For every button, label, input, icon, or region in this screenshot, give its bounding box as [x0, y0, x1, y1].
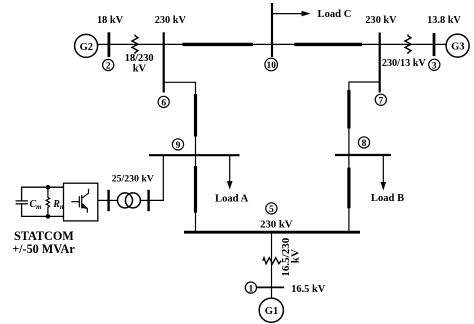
transformer 230/13 kV winding zigzag: [405, 35, 411, 54]
wire: corner from bus 7 down to bus 8: [349, 82, 380, 155]
wire: thick line segment bus10 to bus7-side: [294, 43, 362, 46]
wire: thick line segment bus8 to bus5: [347, 168, 350, 209]
capacitor Cm plates: [16, 201, 28, 204]
wire: thick line segment bus6-side to bus10: [183, 43, 253, 46]
svg-text:230/13 kV: 230/13 kV: [382, 58, 427, 69]
svg-text:5: 5: [269, 205, 274, 215]
node 5: [266, 203, 277, 215]
wire transformer to right bar: [140, 199, 148, 201]
svg-text:6: 6: [161, 99, 166, 109]
transformer 25/230 kV circles: [118, 193, 141, 208]
wire: bus9 down to bus5: [195, 156, 197, 231]
svg-text:18/230: 18/230: [125, 53, 154, 64]
svg-text:8: 8: [362, 139, 367, 149]
svg-text:Load C: Load C: [318, 9, 352, 20]
svg-text:16.5 kV: 16.5 kV: [291, 284, 326, 295]
node 3: [429, 59, 440, 71]
bus 8 bar: [335, 154, 391, 156]
wire: thick line segment bus6 to bus9: [194, 94, 197, 137]
node 8: [358, 137, 369, 149]
node 7: [375, 94, 386, 106]
node 6: [158, 96, 169, 108]
wire: transformer up to bus 9: [149, 155, 164, 200]
node 2: [103, 59, 114, 71]
wire: bus8 down to bus5: [348, 155, 350, 231]
wire: corner from bus 6 down to bus 9: [164, 82, 196, 155]
node 9: [172, 139, 183, 151]
wire: main 230 kV transmission corridor (G2 to G3): [98, 43, 447, 45]
svg-text:kV: kV: [133, 63, 147, 74]
bus 5 bar: [184, 231, 360, 234]
svg-text:Cm: Cm: [30, 199, 43, 211]
svg-text:230 kV: 230 kV: [365, 15, 397, 26]
generator G3: [446, 34, 469, 57]
svg-text:25/230 kV: 25/230 kV: [112, 173, 154, 184]
wire through transformer: [109, 199, 118, 201]
node 1: [245, 282, 256, 294]
svg-text:3: 3: [432, 62, 437, 72]
transformer 16.5/230 kV winding zigzag: [263, 258, 281, 264]
bus 9 bar: [149, 154, 240, 156]
junction dot top: [46, 185, 51, 190]
svg-text:13.8 kV: 13.8 kV: [427, 15, 461, 26]
Load C arrow: [272, 11, 311, 17]
svg-text:230 kV: 230 kV: [260, 218, 293, 230]
node 10: [265, 58, 278, 71]
wire: thick line segment bus7 to bus8: [347, 90, 350, 129]
svg-text:+/-50 MVAr: +/-50 MVAr: [12, 242, 75, 256]
svg-text:kV: kV: [290, 249, 302, 263]
Load A arrow: [227, 156, 233, 190]
svg-text:230 kV: 230 kV: [155, 15, 187, 26]
label 16.5/230 kV (rotated): [280, 237, 302, 276]
svg-text:Load B: Load B: [371, 193, 404, 204]
resistor Rm branch: [46, 187, 49, 216]
converter box (VSC): [64, 183, 98, 221]
svg-text:1: 1: [249, 284, 254, 294]
svg-text:G2: G2: [80, 42, 93, 53]
bus 1 bar: [256, 286, 284, 288]
generator G2: [75, 34, 98, 57]
IGBT symbol inside converter: [71, 189, 88, 213]
Load B arrow: [381, 155, 387, 191]
transformer 18/230 kV winding zigzag: [132, 35, 138, 54]
transformer 25/230 kV left bar: [107, 190, 109, 211]
svg-text:9: 9: [176, 141, 181, 151]
svg-text:Load A: Load A: [215, 193, 249, 204]
junction dot bottom: [46, 214, 51, 219]
generator G1: [259, 298, 283, 322]
transformer 25/230 kV right bar: [147, 190, 149, 211]
svg-text:18 kV: 18 kV: [97, 15, 124, 26]
svg-text:7: 7: [378, 97, 383, 107]
bus bar 230 kV at node 6: [163, 32, 165, 92]
bus 10 bar: [271, 3, 273, 57]
bus bar 230 kV at node 7: [379, 33, 381, 93]
wire: converter to transformer: [98, 199, 109, 201]
bus 3 bar: [433, 33, 436, 56]
wire: thick line segment bus9 to bus5: [194, 166, 197, 213]
svg-text:10: 10: [266, 61, 276, 71]
svg-text:G3: G3: [451, 42, 464, 53]
wire: bus5 down to G1: [271, 234, 273, 298]
bus 2 bar: [108, 32, 111, 57]
svg-text:2: 2: [106, 62, 111, 72]
statcom dc loop wires: [22, 187, 64, 216]
svg-text:G1: G1: [265, 306, 278, 317]
label 18/230 kV: [125, 53, 154, 75]
